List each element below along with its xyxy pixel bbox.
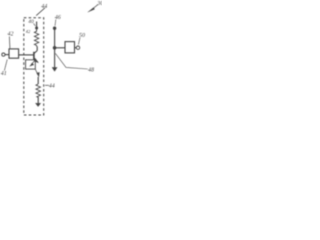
transistor emitter bbox=[34, 58, 38, 62]
down arrowhead bbox=[52, 67, 57, 71]
box 50 bbox=[65, 42, 75, 53]
svg-text:42: 42 bbox=[26, 29, 31, 34]
collector wire bbox=[36, 46, 38, 50]
leader 44 top bbox=[36, 8, 45, 16]
stub above node bbox=[36, 22, 38, 28]
box 42 bbox=[9, 49, 19, 58]
label 40 bbox=[28, 18, 34, 25]
label 46 bbox=[55, 14, 61, 21]
label 44 (bottom) bbox=[49, 83, 55, 90]
wire box 42 to base bbox=[19, 54, 34, 56]
leader 44 bottom bbox=[45, 84, 49, 86]
svg-text:41: 41 bbox=[1, 70, 7, 77]
leader 50 bbox=[78, 38, 80, 45]
label 50 bbox=[79, 33, 85, 39]
svg-text:40: 40 bbox=[28, 18, 34, 25]
transistor Q collector diag bbox=[34, 51, 37, 54]
input terminal bbox=[2, 53, 5, 56]
wire junction to box 50 bbox=[55, 47, 65, 49]
transistor base bar bbox=[33, 52, 35, 60]
label 42 (input box) bbox=[8, 31, 14, 38]
inner arrow bbox=[31, 61, 35, 65]
leader 41 bbox=[4, 60, 7, 71]
label 44 (top) bbox=[41, 3, 47, 10]
terminal dot 46 bbox=[53, 27, 56, 30]
leader 42 bbox=[8, 37, 11, 49]
resistor R-bottom bbox=[36, 84, 40, 97]
arrow below box to resistor bbox=[35, 69, 38, 75]
output terminal bbox=[76, 46, 79, 49]
svg-text:48: 48 bbox=[88, 67, 94, 74]
wire below resistor bbox=[37, 97, 39, 104]
label 30 bbox=[96, 1, 103, 7]
inner box bbox=[26, 60, 36, 69]
svg-text:30: 30 bbox=[96, 1, 102, 7]
wire terminal to box 42 bbox=[5, 54, 9, 56]
junction dot bbox=[53, 46, 57, 50]
arrow 30 bbox=[92, 4, 98, 9]
leader 46 bbox=[54, 20, 57, 26]
line 46 vertical bbox=[54, 28, 56, 68]
emitter arrowhead bbox=[34, 58, 39, 63]
leader 48 bbox=[55, 53, 87, 69]
label 42 tiny inside bbox=[26, 29, 31, 34]
svg-text:44: 44 bbox=[49, 83, 55, 90]
ground arrow bbox=[35, 103, 40, 106]
wire to lower resistor bbox=[37, 77, 39, 84]
svg-text:42: 42 bbox=[8, 31, 14, 38]
label 48 bbox=[88, 67, 94, 74]
node dot bbox=[35, 27, 38, 30]
dashed box 44 bbox=[24, 18, 44, 115]
resistor R-top bbox=[34, 28, 38, 47]
leader 40 tick bbox=[34, 23, 36, 26]
label 41 (bottom-left) bbox=[1, 70, 7, 77]
wire box 50 to output bbox=[75, 47, 77, 49]
